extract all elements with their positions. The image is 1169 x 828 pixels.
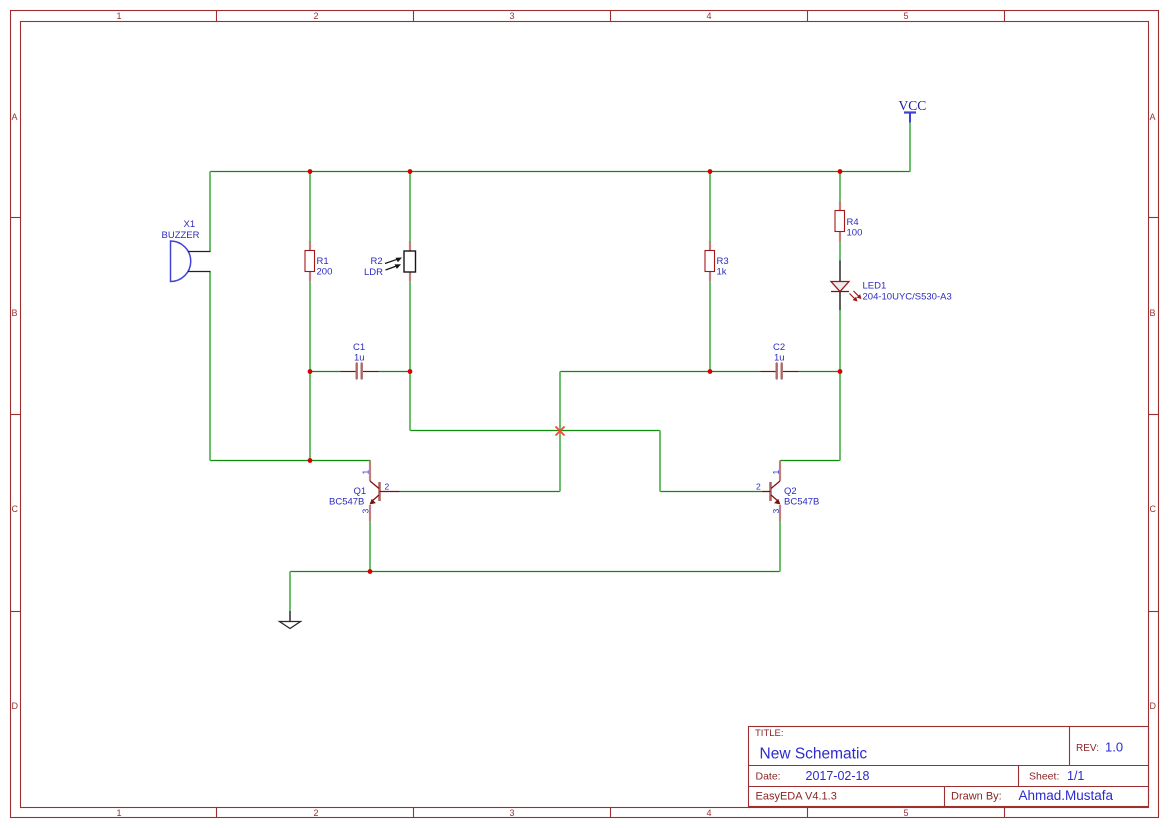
svg-text:100: 100 bbox=[847, 228, 863, 239]
wire Q1 emitter bbox=[369, 521, 371, 572]
capacitor C2 bbox=[761, 342, 799, 379]
wire R1 bottom to Q1 collector node bbox=[309, 281, 311, 461]
svg-text:5: 5 bbox=[903, 11, 908, 21]
wire C2 right bbox=[799, 371, 841, 373]
frame letters right bbox=[1150, 112, 1157, 711]
buzzer X1 bbox=[162, 219, 211, 282]
svg-text:4: 4 bbox=[706, 11, 711, 21]
svg-text:D: D bbox=[1150, 701, 1157, 711]
VCC bbox=[899, 98, 927, 123]
svg-text:C1: C1 bbox=[353, 342, 365, 353]
node C2 left bbox=[708, 369, 713, 374]
svg-text:1: 1 bbox=[116, 808, 121, 818]
svg-text:BUZZER: BUZZER bbox=[162, 230, 200, 241]
node R2 top bbox=[408, 169, 413, 174]
title block bbox=[749, 727, 1149, 807]
svg-text:REV:: REV: bbox=[1076, 743, 1099, 754]
svg-text:200: 200 bbox=[317, 267, 333, 278]
svg-text:R1: R1 bbox=[317, 256, 329, 267]
wire R4 to LED bbox=[839, 241, 841, 261]
resistor R1 bbox=[305, 241, 332, 281]
svg-text:1: 1 bbox=[116, 11, 121, 21]
transistor Q2 bbox=[756, 461, 819, 522]
svg-text:3: 3 bbox=[771, 509, 781, 514]
wire ground drop bbox=[289, 572, 291, 612]
svg-text:EasyEDA V4.1.3: EasyEDA V4.1.3 bbox=[756, 791, 837, 803]
svg-text:BC547B: BC547B bbox=[784, 497, 819, 508]
vertical wires (soft) bbox=[210, 123, 910, 612]
frame numbers bottom bbox=[116, 808, 908, 818]
svg-text:2: 2 bbox=[313, 808, 318, 818]
wire VCC stub bbox=[909, 123, 911, 172]
svg-text:3: 3 bbox=[509, 808, 514, 818]
svg-text:Sheet:: Sheet: bbox=[1029, 771, 1059, 783]
node C1 right bbox=[408, 369, 413, 374]
node R4 top bbox=[838, 169, 843, 174]
wire R2 bottom to crossover bbox=[409, 281, 411, 431]
svg-text:3: 3 bbox=[361, 509, 371, 514]
svg-text:1u: 1u bbox=[774, 353, 785, 364]
crossover marker X bbox=[556, 427, 565, 436]
svg-text:1u: 1u bbox=[354, 353, 365, 364]
wire R3 bottom bbox=[709, 281, 711, 372]
frame letters left bbox=[12, 112, 19, 711]
wire R2 node to Q2 base (upper run) bbox=[410, 430, 660, 432]
svg-text:New Schematic: New Schematic bbox=[760, 746, 868, 763]
svg-text:B: B bbox=[12, 308, 18, 318]
photoresistor R2 LDR bbox=[364, 241, 416, 281]
svg-text:1: 1 bbox=[361, 470, 371, 475]
svg-text:1/1: 1/1 bbox=[1067, 769, 1084, 783]
svg-text:LED1: LED1 bbox=[863, 281, 887, 292]
resistor R3 bbox=[705, 241, 729, 281]
svg-text:C2: C2 bbox=[773, 342, 785, 353]
svg-text:Ahmad.Mustafa: Ahmad.Mustafa bbox=[1019, 788, 1114, 803]
wire Q2 emitter bbox=[779, 521, 781, 572]
node C1 left bbox=[308, 369, 313, 374]
wire R1 top bbox=[309, 172, 311, 242]
node R3 top bbox=[708, 169, 713, 174]
svg-text:4: 4 bbox=[706, 808, 711, 818]
svg-text:BC547B: BC547B bbox=[329, 497, 364, 508]
wire mid node to R3 bbox=[560, 371, 710, 373]
svg-text:1k: 1k bbox=[717, 267, 727, 278]
transistor Q1 bbox=[329, 461, 400, 522]
ground bbox=[280, 611, 301, 629]
node C2 right bbox=[838, 369, 843, 374]
junction dots bbox=[308, 169, 843, 574]
svg-text:VCC: VCC bbox=[899, 98, 927, 113]
wire top rail bbox=[210, 171, 911, 173]
svg-text:R4: R4 bbox=[847, 217, 859, 228]
svg-text:Date:: Date: bbox=[756, 771, 781, 783]
svg-text:D: D bbox=[12, 701, 19, 711]
svg-text:2: 2 bbox=[385, 482, 390, 492]
resistor R4 bbox=[835, 201, 862, 241]
svg-text:Q2: Q2 bbox=[784, 486, 797, 497]
LED1 bbox=[831, 261, 952, 311]
svg-text:5: 5 bbox=[903, 808, 908, 818]
svg-text:LDR: LDR bbox=[364, 267, 383, 278]
wire R2 top bbox=[409, 172, 411, 242]
wire R3 top bbox=[709, 172, 711, 242]
wire emitter/ground rail bbox=[290, 571, 780, 573]
svg-text:TITLE:: TITLE: bbox=[755, 728, 784, 739]
wire C1 right bbox=[379, 371, 411, 373]
svg-text:R3: R3 bbox=[717, 256, 729, 267]
svg-text:A: A bbox=[1150, 112, 1156, 122]
wire Q2 base corner bbox=[659, 431, 661, 492]
wire buzzer pin2 down bbox=[209, 272, 211, 461]
wire buzzer pin1 up bbox=[209, 172, 211, 252]
wire Q1 base run bbox=[400, 491, 561, 493]
svg-text:B: B bbox=[1150, 308, 1156, 318]
svg-text:Drawn By:: Drawn By: bbox=[951, 791, 1002, 803]
svg-text:3: 3 bbox=[509, 11, 514, 21]
svg-text:C: C bbox=[12, 504, 19, 514]
node R1 top bbox=[308, 169, 313, 174]
svg-text:2: 2 bbox=[756, 482, 761, 492]
svg-text:R2: R2 bbox=[371, 256, 383, 267]
svg-text:Q1: Q1 bbox=[354, 486, 367, 497]
capacitor C1 bbox=[341, 342, 379, 379]
svg-text:A: A bbox=[12, 112, 18, 122]
svg-text:2: 2 bbox=[313, 11, 318, 21]
frame numbers top bbox=[116, 11, 908, 21]
wire C1 left bbox=[310, 371, 341, 373]
wire LED bottom bbox=[839, 310, 841, 461]
wire R4 top bbox=[839, 172, 841, 202]
wire cross vertical bbox=[559, 372, 561, 492]
wire LED to Q2 collector bbox=[780, 460, 840, 462]
wire buzzer to Q1 collector bbox=[210, 460, 371, 462]
svg-text:C: C bbox=[1150, 504, 1157, 514]
node Q1 collector bbox=[308, 458, 313, 463]
wire Q2 base run bbox=[660, 491, 762, 493]
svg-text:2017-02-18: 2017-02-18 bbox=[806, 769, 870, 783]
horizontal wires (crisp) bbox=[210, 172, 911, 572]
wire C2 left bbox=[710, 371, 761, 373]
svg-text:204-10UYC/S530-A3: 204-10UYC/S530-A3 bbox=[863, 292, 952, 303]
svg-text:1.0: 1.0 bbox=[1105, 740, 1123, 755]
node emitter rail bbox=[368, 569, 373, 574]
svg-text:X1: X1 bbox=[184, 219, 196, 230]
svg-text:1: 1 bbox=[771, 470, 781, 475]
